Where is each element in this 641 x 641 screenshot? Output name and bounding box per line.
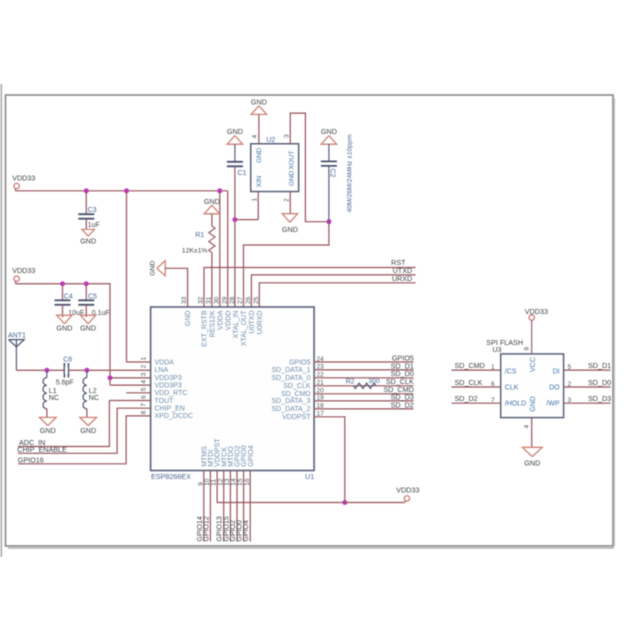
pin number 28 (U1): [229, 296, 236, 304]
net label CHIP_ENABLE: [17, 445, 67, 454]
pin number 7 (U1): [141, 403, 148, 407]
svg-text:30: 30: [213, 296, 220, 304]
svg-text:VDD33: VDD33: [396, 485, 419, 494]
node junction C1/XIN: [232, 217, 237, 222]
pin number 2 (U3): [568, 381, 572, 388]
wire rail to pin30: [219, 191, 221, 307]
wire U1 pin 15: [243, 471, 245, 542]
svg-text:1uF: 1uF: [88, 222, 100, 229]
ground GND above R1: [204, 197, 220, 214]
wire U3 pin4 GND stub: [531, 418, 533, 448]
svg-text:U1: U1: [305, 472, 314, 481]
wire C4 upper stub: [62, 284, 64, 301]
power port VDD33 (bottom): [396, 485, 419, 502]
svg-text:TOUT: TOUT: [155, 398, 175, 405]
net label GPIO12 (rotated): [203, 516, 210, 541]
svg-text:4: 4: [141, 380, 148, 384]
net label SD_CMD: [383, 385, 413, 394]
svg-text:VDD3P3: VDD3P3: [155, 382, 182, 389]
svg-text:1: 1: [251, 198, 258, 202]
pin number 16 (U1): [244, 478, 251, 486]
svg-text:8: 8: [524, 347, 531, 351]
svg-text:33: 33: [181, 296, 188, 304]
pin name CLK (U3): [505, 384, 519, 391]
svg-text:CHIP_ENABLE: CHIP_ENABLE: [17, 445, 67, 454]
pin name VDDPST (U1 pin 17): [282, 414, 311, 421]
pin name GND (U3 rotated): [530, 396, 537, 412]
ic U1 ESP8266EX box: [151, 307, 315, 481]
wire C1 to XTAL_IN (U1 pin28): [234, 166, 236, 307]
wire C3 lower stub: [85, 219, 87, 230]
wire rail corner to pin29: [227, 191, 229, 307]
pin name XIN (U2 left bottom): [256, 176, 263, 187]
svg-text:GPIO4: GPIO4: [248, 445, 255, 467]
pin number 5 (U1): [141, 387, 148, 391]
svg-text:GND: GND: [80, 237, 96, 246]
svg-text:L1: L1: [49, 388, 57, 395]
svg-text:VDD33: VDD33: [12, 266, 35, 275]
net label GPIO16: [18, 455, 44, 464]
pin number 22 (U1): [317, 372, 325, 379]
pin number 4 (U2): [251, 135, 258, 139]
svg-text:26: 26: [245, 296, 252, 304]
pin number 3 (U3): [568, 397, 572, 404]
pin number 1 (U1): [141, 357, 148, 361]
wire U1 pin 12: [223, 471, 225, 542]
ground GND under L1: [39, 417, 56, 435]
pin name VDDA (U1 pin 30): [217, 310, 224, 330]
wire U3 pin 3 net SD_D3: [564, 402, 611, 404]
pin number 3 (U2): [283, 134, 290, 138]
pin number 19 (U1): [317, 395, 325, 402]
svg-text:7: 7: [491, 397, 495, 404]
wire XOUT to XTAL_OUT (U1 pin27): [244, 222, 329, 307]
pin number 5 (U3): [568, 364, 572, 371]
pin name /HOLD (U3): [505, 401, 526, 408]
svg-text:31: 31: [206, 296, 213, 304]
wire U1 pin 9: [203, 471, 205, 542]
svg-text:300: 300: [369, 378, 381, 385]
pin name VDD_RTC (U1 pin 5): [155, 390, 188, 397]
net label SD_D3: [588, 394, 611, 403]
pin name SD_DATA_3 (U1 pin 19): [271, 398, 310, 405]
wire C4 lower stub: [62, 305, 64, 317]
net label RST: [391, 258, 406, 267]
svg-text:XOUT: XOUT: [288, 151, 295, 170]
net label SD_D0: [588, 378, 611, 387]
pin name GND (U2 right bottom): [288, 171, 295, 186]
resistor R1: [182, 226, 215, 254]
svg-text:C5: C5: [88, 293, 97, 300]
svg-text:3: 3: [283, 134, 290, 138]
node junction C5 tap: [84, 281, 89, 286]
pin number 3 (U1): [141, 372, 148, 376]
svg-text:VDD3P3: VDD3P3: [155, 375, 182, 382]
node junction pin30 tap: [217, 188, 222, 193]
svg-text:NC: NC: [49, 395, 59, 402]
capacitor C3: [78, 207, 99, 229]
wire U1 pin 13: [229, 471, 231, 542]
resistor R2: [346, 378, 380, 388]
wire U2 pin4 stub: [258, 114, 260, 143]
svg-text:C3: C3: [88, 207, 97, 214]
wire XPD_DCDC / GPIO16: [18, 416, 151, 464]
wire L1 to GND: [46, 409, 48, 418]
svg-text:29: 29: [221, 296, 228, 304]
svg-text:1: 1: [141, 357, 148, 361]
svg-text:40M/26M/24MHz ±10ppm: 40M/26M/24MHz ±10ppm: [347, 134, 354, 212]
wire UTXD net: [251, 275, 415, 307]
wire C3 upper stub: [85, 191, 87, 214]
power port VDD33 (top left): [12, 174, 35, 192]
pin number 1 (U3): [491, 364, 495, 371]
pin number 8 (U1): [141, 410, 148, 414]
wire VDD33 rail y=191: [16, 190, 228, 192]
svg-text:SD_D2: SD_D2: [455, 394, 478, 403]
wire C5 lower stub: [85, 305, 87, 317]
pin number 2 (U2): [283, 198, 290, 202]
ground GND under C5: [80, 315, 96, 332]
pin number 29 (U1): [221, 296, 228, 304]
pin name GPIO2 (U1 pin 14): [235, 445, 242, 467]
svg-text:R1: R1: [195, 232, 204, 239]
pin number 15 (U1): [237, 478, 244, 486]
svg-text:GPIO4: GPIO4: [243, 520, 250, 542]
pin name TOUT (U1 pin 6): [155, 398, 175, 405]
svg-text:XPD_DCDC: XPD_DCDC: [155, 413, 194, 420]
svg-text:GND: GND: [56, 323, 72, 332]
wire L2 to GND: [86, 409, 88, 418]
antenna ANT1: [8, 333, 26, 371]
net label URXD: [392, 274, 412, 283]
svg-text:3: 3: [568, 397, 572, 404]
svg-text:2: 2: [283, 198, 290, 202]
pin number 4 (U1): [141, 380, 148, 384]
wire C2 lower stub: [328, 166, 330, 222]
capacitor C4: [55, 293, 85, 317]
wire U1 pin 10: [209, 471, 211, 542]
pin name DI (U3): [553, 369, 560, 376]
wire VDD3P3 pin4 feed: [110, 384, 151, 386]
svg-text:GND: GND: [204, 197, 220, 206]
svg-text:VDDD: VDDD: [225, 311, 232, 331]
inductor L2: [83, 370, 99, 409]
svg-text:DI: DI: [553, 369, 560, 376]
svg-text:XTAL_IN: XTAL_IN: [233, 311, 240, 339]
net label SD_CLK: [455, 378, 483, 387]
svg-text:5.6pF: 5.6pF: [56, 380, 74, 387]
pin name MTMS (U1 pin 9): [201, 446, 208, 467]
pin number 13 (U1): [224, 478, 231, 486]
pin name EXT_RSTB (U1 pin 32): [202, 310, 209, 347]
svg-text:SD_CLK: SD_CLK: [455, 378, 483, 387]
svg-text:C4: C4: [64, 293, 73, 300]
svg-text:SD_D2: SD_D2: [391, 400, 414, 409]
wire TOUT / ADC_IN: [18, 401, 151, 447]
pin number 33 (U1): [181, 296, 188, 304]
wire U2 pin2 stub: [289, 192, 291, 214]
net label SD_D1: [588, 361, 611, 370]
svg-text:SPI FLASH: SPI FLASH: [486, 338, 523, 347]
svg-text:/HOLD: /HOLD: [505, 401, 526, 408]
svg-text:28: 28: [229, 296, 236, 304]
svg-text:2: 2: [141, 364, 148, 368]
svg-text:ANT1: ANT1: [8, 333, 26, 340]
net label SD_CMD: [455, 361, 485, 370]
pin name VDDPST (U1 pin 11): [215, 438, 222, 467]
node junction C3 tap: [84, 188, 89, 193]
pin number 26 (U1): [245, 296, 252, 304]
node junction VDDPST rail: [342, 500, 347, 505]
wire XIN link: [235, 219, 258, 221]
wire U1 pin 14: [236, 471, 238, 542]
svg-text:SD_D0: SD_D0: [588, 378, 611, 387]
svg-text:GND: GND: [227, 127, 243, 136]
ground GND left arrow (U1 pin33): [149, 261, 165, 276]
svg-text:SD_DATA_0: SD_DATA_0: [271, 375, 310, 382]
capacitor C2: [321, 161, 337, 177]
node junction C4 tap: [60, 281, 65, 286]
svg-text:SD_D1: SD_D1: [588, 361, 611, 370]
capacitor C1: [227, 162, 247, 177]
pin name VCC (U3 rotated): [530, 357, 537, 372]
svg-text:L2: L2: [89, 388, 97, 395]
pin number 14 (U1): [231, 478, 238, 486]
svg-text:GND: GND: [288, 171, 295, 186]
pin name LNA (U1 pin 2): [155, 367, 169, 374]
wire U3 pin 1 net SD_CMD: [452, 369, 501, 371]
pin number 25 (U1): [253, 296, 260, 304]
ground GND above C2: [321, 127, 337, 144]
pin name XTAL_OUT (U1 pin 27): [241, 310, 248, 346]
svg-text:SD_CMD: SD_CMD: [281, 391, 311, 398]
svg-text:1: 1: [491, 364, 495, 371]
pin number 24 (U1): [317, 356, 325, 363]
wire VDD33 rail2: [16, 284, 111, 385]
net label GPIO2 (rotated): [230, 520, 237, 542]
pin number 27 (U1): [237, 296, 244, 304]
wire U2 pin1 stub: [257, 192, 259, 220]
svg-text:GPIO16: GPIO16: [18, 455, 44, 464]
pin number 8 (U3): [524, 347, 531, 351]
net label GPIO13 (rotated): [217, 516, 224, 541]
wire R1 to RES12K (U1 pin31): [211, 253, 213, 308]
pin name VDDA (U1 pin 1): [155, 359, 175, 366]
wire U3 pin 2 net SD_D0: [564, 386, 611, 388]
svg-text:GND: GND: [524, 458, 540, 467]
svg-text:GND: GND: [149, 261, 156, 276]
wire VDDA feed (rail to U1 pin1): [127, 191, 151, 362]
pin number 31 (U1): [206, 296, 213, 304]
pin name XPD_DCDC (U1 pin 8): [155, 413, 194, 420]
net label GPIO14 (rotated): [197, 516, 204, 541]
pin number 21 (U1): [317, 380, 325, 387]
svg-text:EXT_RSTB: EXT_RSTB: [202, 310, 209, 347]
svg-text:GND: GND: [530, 396, 537, 412]
pin name U0RXD (U1 pin 25): [257, 311, 264, 335]
wire U3 pin 7 net SD_D2: [452, 402, 501, 404]
svg-text:ESP8266EX: ESP8266EX: [151, 472, 191, 481]
pin name DO (U3): [549, 384, 560, 391]
svg-text:SD_CMD: SD_CMD: [455, 361, 485, 370]
svg-text:VDD33: VDD33: [12, 174, 35, 183]
pin name SD_CMD (U1 pin 20): [281, 391, 311, 398]
pin number 12 (U1): [217, 478, 224, 486]
pin name SD_CLK (U1 pin 21): [283, 383, 311, 390]
net label SD_CLK: [386, 377, 414, 386]
svg-text:U3: U3: [493, 347, 502, 354]
pin number 18 (U1): [317, 403, 325, 410]
net label GPIO4 (rotated): [243, 520, 250, 542]
svg-text:XIN: XIN: [256, 176, 263, 187]
wire U1 pin11 VDDPST to VDD33: [217, 471, 404, 503]
pin name GPIO5 (U1 pin 24): [289, 359, 311, 366]
wire U1 pin 23 net SD_D1: [314, 369, 413, 371]
net label SD_D1: [391, 361, 414, 370]
pin number 32 (U1): [198, 296, 205, 304]
svg-text:CLK: CLK: [505, 384, 519, 391]
wire URXD net: [259, 283, 415, 307]
wire U1 pin 22 net SD_D0: [314, 377, 413, 379]
svg-text:VCC: VCC: [530, 357, 537, 372]
svg-text:25: 25: [253, 296, 260, 304]
wire U1 pin 16: [249, 471, 251, 542]
pin name VDD3P3 (U1 pin 4): [155, 382, 182, 389]
pin name MTCK (U1 pin 12): [221, 447, 228, 467]
wire U1 pin17 VDDPST: [314, 417, 345, 503]
node junction VDDA tap: [124, 188, 129, 193]
svg-text:GND: GND: [80, 323, 96, 332]
svg-text:VDDA: VDDA: [155, 359, 175, 366]
pin name /WP (U3): [546, 401, 560, 408]
pin number 11 (U1): [211, 479, 218, 486]
svg-text:GND: GND: [282, 225, 298, 234]
ground GND under L2: [80, 417, 97, 435]
net label SD_D3: [391, 392, 414, 401]
svg-text:/WP: /WP: [546, 401, 560, 408]
pin number 30 (U1): [213, 296, 220, 304]
pin number 7 (U3): [491, 397, 495, 404]
wire GND to R1: [211, 214, 213, 226]
svg-text:GND: GND: [185, 311, 192, 327]
pin name VDD3P3 (U1 pin 3): [155, 375, 182, 382]
ground GND under U3: [522, 447, 542, 467]
node junction L2 tap: [84, 368, 89, 373]
pin name GPIO4 (U1 pin 16): [248, 445, 255, 467]
svg-text:U2: U2: [266, 137, 275, 144]
pin number 6 (U1): [141, 395, 148, 399]
svg-text:4: 4: [524, 425, 531, 429]
pin name RES12K (U1 pin 31): [210, 310, 217, 337]
pin number 23 (U1): [317, 364, 325, 371]
svg-text:GND: GND: [256, 148, 263, 163]
ground GND above C1: [227, 127, 243, 144]
svg-text:5: 5: [141, 387, 148, 391]
svg-text:C2: C2: [329, 169, 336, 178]
pin number 20 (U1): [317, 388, 325, 395]
svg-text:/CS: /CS: [505, 369, 517, 376]
svg-text:SD_D3: SD_D3: [588, 394, 611, 403]
pin name GPIO0 (U1 pin 15): [241, 445, 248, 467]
svg-text:U0TXD: U0TXD: [249, 311, 256, 334]
pin number 4 (U3): [524, 425, 531, 429]
svg-text:URXD: URXD: [392, 274, 412, 283]
svg-text:27: 27: [237, 296, 244, 304]
pin name SD_DATA_2 (U1 pin 18): [271, 406, 310, 413]
wire VDD_RTC stub: [126, 392, 150, 394]
net label SD_D0: [391, 369, 414, 378]
net label SD_D2: [391, 400, 414, 409]
net label GPIO5: [392, 353, 414, 362]
wire GND to C2: [328, 144, 330, 161]
net label SD_D2: [455, 394, 478, 403]
svg-text:SD_CLK: SD_CLK: [283, 383, 311, 390]
node junction L1 tap: [44, 368, 49, 373]
pin name VDDD (U1 pin 29): [225, 311, 232, 331]
svg-text:GND: GND: [80, 426, 96, 435]
wire U1 pin 21 net SD_CLK: [314, 385, 413, 387]
capacitor C6: [56, 357, 74, 387]
svg-text:VDDPST: VDDPST: [282, 414, 311, 421]
svg-text:R2: R2: [346, 378, 355, 385]
wire RST net: [204, 268, 416, 308]
wire U1 pin 19 net SD_D3: [314, 400, 413, 402]
svg-text:RES12K: RES12K: [210, 310, 217, 337]
wire pin33 to GND: [165, 268, 187, 307]
svg-text:XTAL_OUT: XTAL_OUT: [241, 310, 248, 346]
pin name SD_DATA_1 (U1 pin 23): [271, 367, 310, 374]
svg-text:VDD33: VDD33: [525, 307, 548, 316]
net label GPIO0 (rotated): [237, 520, 244, 542]
svg-text:SD_DATA_3: SD_DATA_3: [271, 398, 310, 405]
pin number 6 (U3): [491, 381, 495, 388]
power port VDD33 (left): [12, 266, 35, 284]
svg-text:2: 2: [568, 381, 572, 388]
pin name CHIP_EN (U1 pin 7): [155, 406, 185, 413]
svg-text:GND: GND: [40, 426, 56, 435]
wire GND to C1: [234, 144, 236, 162]
svg-text:GPIO5: GPIO5: [289, 359, 311, 366]
value 40M/26M/24MHz ±10ppm: [347, 134, 354, 212]
svg-text:LNA: LNA: [155, 367, 169, 374]
pin number 1 (U2): [251, 198, 258, 202]
pin number 9 (U1): [197, 482, 204, 486]
wire VDD3P3 pin3 feed: [110, 377, 151, 379]
svg-text:SD_DATA_2: SD_DATA_2: [271, 406, 310, 413]
svg-text:7: 7: [141, 403, 148, 407]
svg-text:3: 3: [141, 372, 148, 376]
wire C5 upper stub: [85, 284, 87, 301]
pin name /CS (U3): [505, 369, 517, 376]
pin name GND (U1 pin 33): [185, 311, 192, 327]
pin name SD_DATA_0 (U1 pin 22): [271, 375, 310, 382]
svg-text:VDDA: VDDA: [217, 310, 224, 330]
svg-text:U0RXD: U0RXD: [257, 311, 264, 335]
wire U3 pin 5 net SD_D1: [564, 369, 611, 371]
wire antenna to LNA: [16, 369, 150, 371]
sheet border frame: [1, 84, 614, 557]
ground GND under C3: [80, 229, 96, 245]
wire U1 pin 24 net GPIO5: [314, 361, 413, 363]
svg-text:GPIO12: GPIO12: [203, 516, 210, 541]
wire XOUT path: [290, 113, 329, 222]
svg-text:GND: GND: [251, 97, 267, 106]
svg-text:5: 5: [568, 364, 572, 371]
svg-text:12K±1%: 12K±1%: [182, 247, 208, 254]
ground GND above U2 pin4: [251, 97, 267, 114]
pin name MTDI (U1 pin 10): [208, 450, 215, 467]
capacitor C5: [78, 293, 109, 317]
